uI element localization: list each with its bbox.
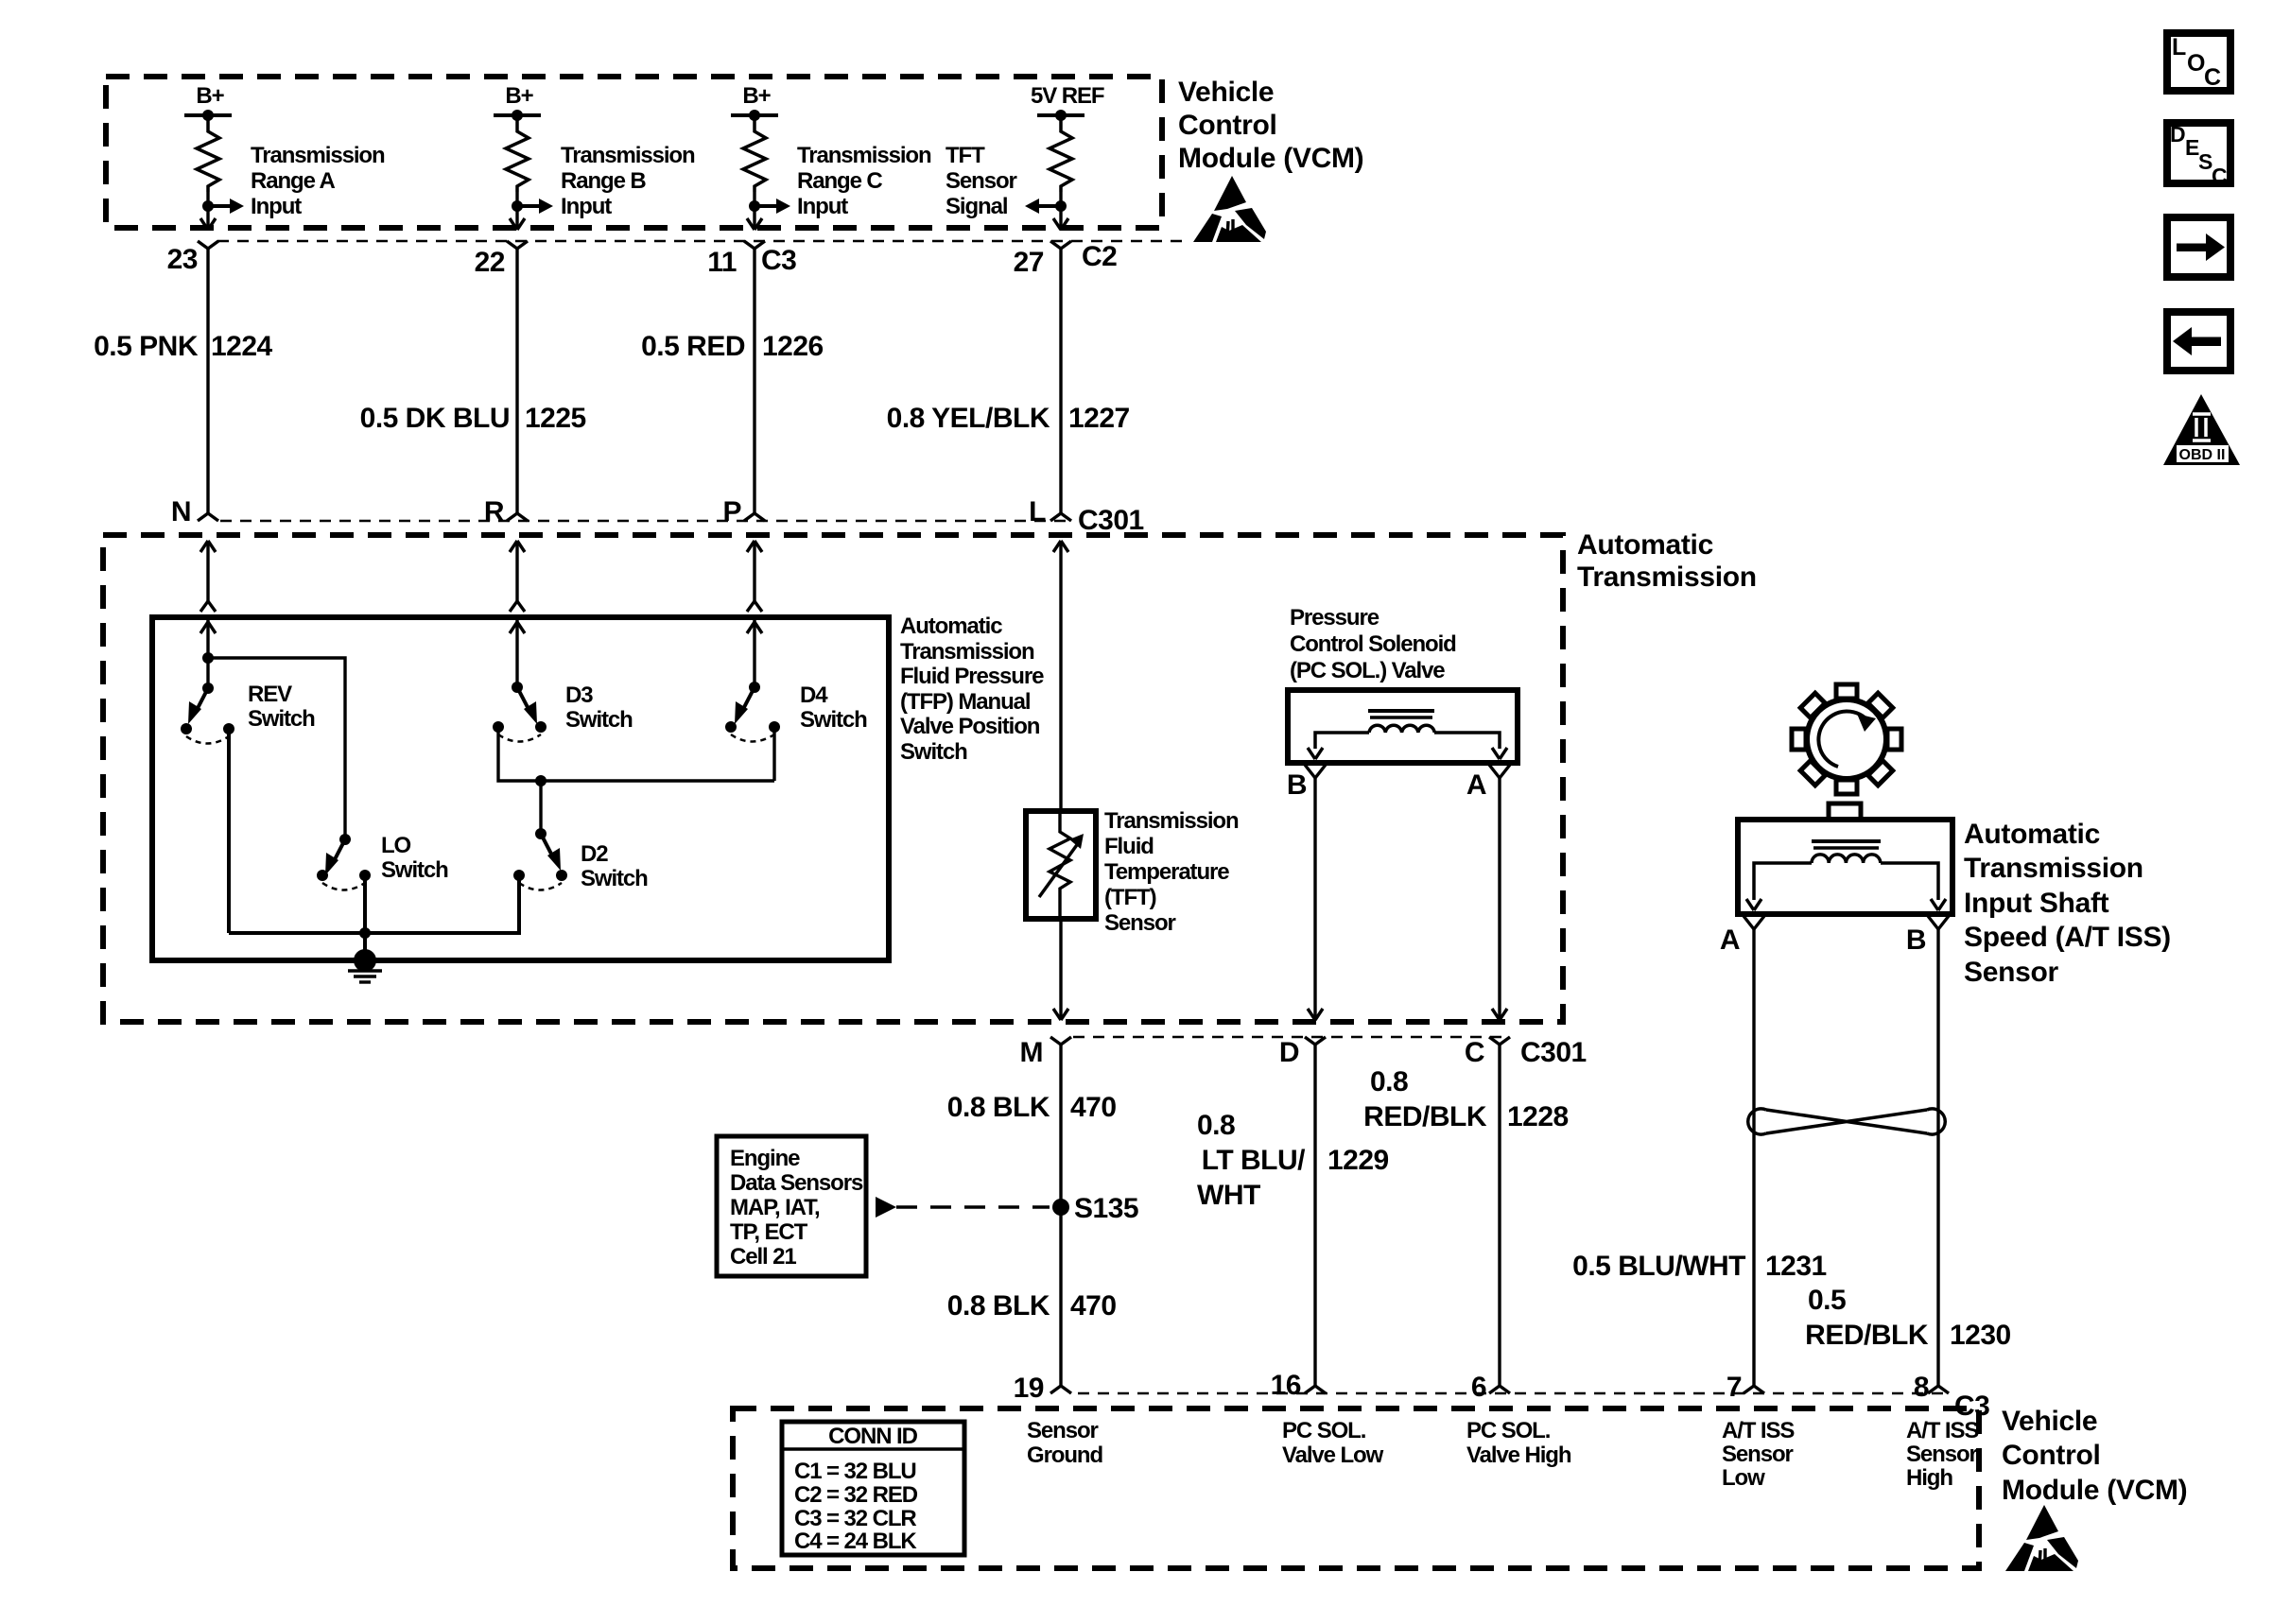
svg-text:O: O xyxy=(2187,50,2205,77)
PC SOL valve (pressure control solenoid) xyxy=(1288,690,1518,763)
svg-text:1225: 1225 xyxy=(525,403,586,434)
connector pin 16 xyxy=(1271,1370,1326,1401)
svg-text:Transmission: Transmission xyxy=(900,639,1034,665)
svg-text:1231: 1231 xyxy=(1765,1251,1827,1282)
svg-text:Module (VCM): Module (VCM) xyxy=(1178,143,1363,174)
svg-text:WHT: WHT xyxy=(1197,1180,1260,1211)
connector pin N xyxy=(171,496,218,527)
connector pin 27, C2 xyxy=(1014,241,1118,278)
resistor: Transmission Range C pull-up xyxy=(743,115,766,192)
svg-text:Input Shaft: Input Shaft xyxy=(1964,888,2109,919)
connector row C301 (bottom M/D/C) xyxy=(1073,1036,1509,1039)
svg-text:R: R xyxy=(484,496,505,527)
svg-text:Range A: Range A xyxy=(251,168,336,194)
svg-text:TFT: TFT xyxy=(946,143,985,168)
svg-text:Transmission: Transmission xyxy=(1964,853,2143,884)
A/T ISS sensor reluctor gear xyxy=(1769,662,1924,817)
svg-text:Data Sensors: Data Sensors xyxy=(730,1170,863,1196)
connector row C2/C3 (VCM pins 23/22/11/27) xyxy=(217,240,1187,243)
wire 1231: A/T ISS low to VCM pin 7 xyxy=(1752,929,1755,1386)
icon: LOC box xyxy=(2167,33,2230,91)
label: Automatic Transmission xyxy=(1577,529,1757,593)
svg-text:Control Solenoid: Control Solenoid xyxy=(1290,631,1456,657)
TFP manual valve position switch box xyxy=(152,617,889,960)
svg-text:Switch: Switch xyxy=(248,706,315,732)
svg-text:C2 = 32 RED: C2 = 32 RED xyxy=(794,1482,918,1508)
svg-text:1227: 1227 xyxy=(1068,403,1130,434)
wire 1229: PC SOL valve low D to VCM pin 16 xyxy=(1197,1045,1389,1386)
wire 1226: 0.5 RED pin 11 to C301 P xyxy=(641,249,824,513)
label: REV Switch xyxy=(248,682,315,732)
svg-text:Temperature: Temperature xyxy=(1104,859,1229,885)
svg-text:Range C: Range C xyxy=(797,168,882,194)
svg-text:Switch: Switch xyxy=(581,866,648,891)
label: Automatic Transmission Input Shaft Speed (A/T ISS) Sensor xyxy=(1964,819,2171,988)
wire entry arrow column P into transmission xyxy=(747,541,762,612)
svg-text:Sensor: Sensor xyxy=(1722,1442,1794,1467)
connector row C301 (N/R/P/L) xyxy=(220,520,1068,523)
svg-text:D: D xyxy=(1279,1037,1299,1068)
svg-text:C: C xyxy=(2212,164,2228,188)
svg-text:Valve High: Valve High xyxy=(1466,1443,1571,1468)
svg-text:(TFT): (TFT) xyxy=(1104,885,1156,910)
svg-text:Transmission: Transmission xyxy=(561,143,695,168)
svg-text:(PC SOL.) Valve: (PC SOL.) Valve xyxy=(1290,658,1445,683)
connector pin A (PC SOL) xyxy=(1466,765,1510,801)
svg-text:L: L xyxy=(1029,496,1046,527)
svg-text:B+: B+ xyxy=(196,83,224,109)
connector pin L, C301 xyxy=(1029,496,1144,536)
label: D3 Switch xyxy=(565,682,633,733)
svg-text:0.8 BLK: 0.8 BLK xyxy=(947,1092,1050,1123)
svg-text:Module (VCM): Module (VCM) xyxy=(2002,1475,2187,1506)
svg-text:Speed (A/T ISS): Speed (A/T ISS) xyxy=(1964,922,2171,953)
wire: column 2 resistor to pin 22 with node and arrow xyxy=(510,192,553,230)
svg-text:D3: D3 xyxy=(565,682,593,708)
wire entry arrow column L to TFT sensor xyxy=(1053,541,1068,811)
svg-text:B: B xyxy=(1906,924,1926,956)
wire: column 3 resistor to pin 11 with node and arrow xyxy=(747,192,790,230)
svg-text:S135: S135 xyxy=(1074,1193,1138,1224)
wire 1228: PC SOL valve high C to VCM pin 6 xyxy=(1363,1045,1569,1386)
wire: D2 contact to ground bus xyxy=(229,875,519,933)
svg-text:A/T ISS: A/T ISS xyxy=(1722,1418,1795,1443)
svg-text:C: C xyxy=(1465,1037,1484,1068)
svg-text:11: 11 xyxy=(707,247,737,278)
svg-text:Automatic: Automatic xyxy=(1577,529,1713,561)
wire: column 4 resistor to pin 27 with node and left arrow xyxy=(1025,192,1068,230)
switch D2 xyxy=(513,828,567,890)
ESD warning symbol (top VCM) xyxy=(1193,176,1266,242)
svg-text:Automatic: Automatic xyxy=(900,613,1002,639)
label: Vehicle Control Module (VCM) bottom xyxy=(2002,1406,2187,1506)
svg-text:A: A xyxy=(1720,924,1740,956)
label: D4 Switch xyxy=(800,682,867,733)
svg-text:High: High xyxy=(1906,1465,1952,1491)
label: A/T ISS Sensor Low xyxy=(1722,1418,1795,1491)
wire 1225: 0.5 DK BLU pin 22 to C301 R xyxy=(360,249,586,513)
svg-text:0.5 RED: 0.5 RED xyxy=(641,331,745,362)
label: Transmission Range A Input xyxy=(251,143,385,219)
TFT sensor (thermistor) xyxy=(1026,811,1096,919)
svg-text:0.5 PNK: 0.5 PNK xyxy=(94,331,199,362)
wire 1230: A/T ISS high to VCM pin 8 xyxy=(1936,929,1939,1386)
svg-text:MAP, IAT,: MAP, IAT, xyxy=(730,1195,820,1220)
wire: TFT sensor to C301 M with exit arrow xyxy=(1053,919,1068,1020)
svg-text:Switch: Switch xyxy=(565,707,633,733)
switch D4 xyxy=(725,682,780,742)
svg-text:A: A xyxy=(1466,769,1486,801)
label: Transmission Range C Input xyxy=(797,143,931,219)
svg-text:Sensor: Sensor xyxy=(946,168,1017,194)
label: 0.5 RED/BLK 1230 xyxy=(1805,1285,2011,1351)
resistor: TFT sensor pull-up xyxy=(1050,115,1072,192)
icon: OBD II triangle xyxy=(2163,394,2240,465)
svg-text:Input: Input xyxy=(797,194,848,219)
svg-text:D4: D4 xyxy=(800,682,828,708)
svg-text:0.5: 0.5 xyxy=(1808,1285,1846,1316)
svg-text:Fluid Pressure: Fluid Pressure xyxy=(900,664,1044,689)
node: ground bus junction xyxy=(359,927,371,939)
label: Vehicle Control Module (VCM) top xyxy=(1178,77,1363,174)
svg-text:(TFP) Manual: (TFP) Manual xyxy=(900,689,1030,715)
svg-text:23: 23 xyxy=(167,244,198,275)
svg-text:Transmission: Transmission xyxy=(1577,561,1757,593)
label: TFT Sensor Signal xyxy=(946,143,1017,219)
wire 1224: 0.5 PNK pin 23 to C301 N xyxy=(94,249,272,513)
wire: LO contact to ground xyxy=(363,875,367,960)
wire: D3 contact to D2 feed bus xyxy=(498,727,774,834)
icon: back arrow box xyxy=(2167,312,2230,371)
icon: forward arrow box xyxy=(2167,217,2230,277)
svg-text:0.8 YEL/BLK: 0.8 YEL/BLK xyxy=(887,403,1050,434)
CONN ID table xyxy=(782,1422,964,1555)
svg-text:CONN ID: CONN ID xyxy=(828,1424,917,1449)
svg-text:Transmission: Transmission xyxy=(1104,808,1239,834)
A/T ISS sensor body xyxy=(1738,803,1952,914)
svg-text:Pressure: Pressure xyxy=(1290,605,1379,631)
svg-text:Control: Control xyxy=(1178,110,1277,141)
svg-text:1229: 1229 xyxy=(1327,1145,1389,1176)
wire 470: sensor ground M to VCM pin 19 xyxy=(947,1045,1117,1386)
VCM top dashed module box xyxy=(106,77,1162,228)
wire: PC SOL B to C301 D with exit arrow xyxy=(1308,778,1323,1020)
connector pin 23 xyxy=(167,241,218,275)
svg-text:Sensor: Sensor xyxy=(1027,1418,1099,1443)
connector pin B (PC SOL) xyxy=(1287,765,1326,801)
connector pin D xyxy=(1279,1037,1326,1068)
svg-text:C4 = 24 BLK: C4 = 24 BLK xyxy=(794,1529,917,1554)
svg-text:B+: B+ xyxy=(742,83,771,109)
svg-text:Range B: Range B xyxy=(561,168,646,194)
svg-text:Sensor: Sensor xyxy=(1104,910,1176,936)
wire entry arrow column R into transmission xyxy=(510,541,525,612)
svg-text:0.8: 0.8 xyxy=(1370,1066,1408,1097)
svg-text:RED/BLK: RED/BLK xyxy=(1363,1101,1487,1132)
svg-text:Transmission: Transmission xyxy=(251,143,385,168)
label: Sensor Ground xyxy=(1027,1418,1102,1468)
label: 0.5 BLU/WHT 1231 xyxy=(1572,1251,1827,1282)
svg-text:Sensor: Sensor xyxy=(1964,957,2059,988)
svg-text:Input: Input xyxy=(561,194,612,219)
svg-text:B+: B+ xyxy=(505,83,533,109)
label: Automatic Transmission Fluid Pressure (TFP) Manual Valve Position Switch xyxy=(900,613,1044,765)
wire 1227: 0.8 YEL/BLK pin 27 to C301 L xyxy=(887,249,1130,513)
wire: dashed splice reference to S135 xyxy=(876,1197,1050,1218)
splice S135 xyxy=(1052,1193,1138,1224)
svg-text:C: C xyxy=(2204,64,2221,91)
svg-text:Vehicle: Vehicle xyxy=(1178,77,1274,108)
svg-text:LO: LO xyxy=(381,833,411,858)
svg-text:7: 7 xyxy=(1726,1372,1742,1403)
svg-text:D2: D2 xyxy=(581,841,608,867)
svg-text:16: 16 xyxy=(1271,1370,1301,1401)
wire: D3 column inside switch box xyxy=(510,620,525,687)
wire: column 1 resistor to pin 23 with node and arrow xyxy=(200,192,244,230)
svg-text:Fluid: Fluid xyxy=(1104,834,1154,859)
svg-text:470: 470 xyxy=(1070,1092,1117,1123)
power symbol B+ (column 3) xyxy=(731,83,778,121)
twisted pair symbol xyxy=(1748,1109,1946,1134)
svg-text:Ground: Ground xyxy=(1027,1443,1102,1468)
svg-text:C2: C2 xyxy=(1082,241,1117,272)
connector pin B (A/T ISS) xyxy=(1906,916,1949,956)
resistor: Transmission Range B pull-up xyxy=(506,115,529,192)
svg-text:19: 19 xyxy=(1014,1373,1044,1404)
connector pin 19 xyxy=(1014,1373,1071,1404)
svg-text:PC SOL.: PC SOL. xyxy=(1466,1418,1551,1443)
svg-text:Sensor: Sensor xyxy=(1906,1442,1978,1467)
svg-text:Valve Position: Valve Position xyxy=(900,714,1040,739)
connector pin A (A/T ISS) xyxy=(1720,916,1764,956)
Automatic Transmission dashed box xyxy=(103,535,1563,1022)
VCM bottom dashed module box xyxy=(733,1408,1979,1568)
svg-text:REV: REV xyxy=(248,682,292,707)
power symbol 5V REF (column 4) xyxy=(1031,83,1104,121)
ESD warning symbol (bottom VCM) xyxy=(2005,1505,2078,1571)
wire: REV node to LO switch feed xyxy=(202,652,345,839)
svg-text:Automatic: Automatic xyxy=(1964,819,2100,850)
svg-text:L: L xyxy=(2172,34,2186,60)
svg-text:Vehicle: Vehicle xyxy=(2002,1406,2097,1437)
connector pin C, C301 xyxy=(1465,1037,1587,1068)
resistor: Transmission Range A pull-up xyxy=(197,115,219,192)
svg-text:Valve Low: Valve Low xyxy=(1282,1443,1384,1468)
connector pin M xyxy=(1020,1037,1072,1068)
svg-text:A/T ISS: A/T ISS xyxy=(1906,1418,1979,1443)
svg-text:0.5 DK BLU: 0.5 DK BLU xyxy=(360,403,510,434)
ground: TFP switch common xyxy=(348,949,382,982)
svg-text:Switch: Switch xyxy=(381,857,448,883)
svg-text:TP, ECT: TP, ECT xyxy=(730,1219,808,1245)
svg-text:D: D xyxy=(2170,122,2186,147)
svg-text:PC SOL.: PC SOL. xyxy=(1282,1418,1366,1443)
svg-text:470: 470 xyxy=(1070,1290,1117,1322)
wire: REV contact to ground bus xyxy=(227,729,231,933)
svg-text:C301: C301 xyxy=(1520,1037,1587,1068)
svg-text:Switch: Switch xyxy=(800,707,867,733)
icon: DESC box xyxy=(2167,122,2230,188)
connector pin 11, C3 xyxy=(707,241,796,278)
switch REV xyxy=(181,682,234,744)
svg-text:1230: 1230 xyxy=(1950,1320,2011,1351)
svg-text:C301: C301 xyxy=(1078,505,1144,536)
switch LO xyxy=(317,834,371,890)
Engine Data Sensors reference box xyxy=(717,1136,866,1276)
svg-text:M: M xyxy=(1020,1037,1044,1068)
svg-text:0.8 BLK: 0.8 BLK xyxy=(947,1290,1050,1322)
svg-text:C3: C3 xyxy=(761,245,796,276)
svg-text:0.5 BLU/WHT: 0.5 BLU/WHT xyxy=(1572,1251,1745,1282)
label: Pressure Control Solenoid (PC SOL.) Valve xyxy=(1290,605,1456,683)
connector pin 22 xyxy=(475,241,528,278)
label: LO Switch xyxy=(381,833,448,883)
svg-text:Input: Input xyxy=(251,194,302,219)
wire: REV column inside switch box xyxy=(200,620,216,688)
svg-text:1224: 1224 xyxy=(211,331,273,362)
svg-text:22: 22 xyxy=(475,247,505,278)
connector pin 7 xyxy=(1726,1372,1764,1403)
svg-text:OBD II: OBD II xyxy=(2179,447,2226,463)
svg-text:Transmission: Transmission xyxy=(797,143,931,168)
svg-text:5V REF: 5V REF xyxy=(1031,83,1104,109)
svg-text:C1 = 32 BLU: C1 = 32 BLU xyxy=(794,1459,916,1484)
label: Transmission Range B Input xyxy=(561,143,695,219)
power symbol B+ (column 2) xyxy=(494,83,541,121)
svg-text:1228: 1228 xyxy=(1507,1101,1569,1132)
svg-text:C3 = 32 CLR: C3 = 32 CLR xyxy=(794,1506,916,1531)
connector pin 8, C3 xyxy=(1914,1372,1990,1422)
connector row C3 (VCM pins 19/16/6/7/8) xyxy=(1078,1392,1946,1395)
svg-text:Control: Control xyxy=(2002,1440,2101,1471)
svg-text:RED/BLK: RED/BLK xyxy=(1805,1320,1929,1351)
svg-text:Cell 21: Cell 21 xyxy=(730,1244,796,1270)
svg-text:P: P xyxy=(722,496,741,527)
label: PC SOL. Valve Low xyxy=(1282,1418,1384,1468)
svg-text:LT BLU/: LT BLU/ xyxy=(1202,1145,1306,1176)
label: Transmission Fluid Temperature (TFT) Sensor xyxy=(1104,808,1239,936)
svg-text:1226: 1226 xyxy=(762,331,824,362)
svg-text:0.8: 0.8 xyxy=(1197,1110,1235,1141)
svg-text:27: 27 xyxy=(1014,247,1044,278)
svg-text:8: 8 xyxy=(1914,1372,1929,1403)
label: D2 Switch xyxy=(581,841,648,891)
svg-text:B: B xyxy=(1287,769,1307,801)
svg-text:N: N xyxy=(171,496,191,527)
svg-text:Engine: Engine xyxy=(730,1146,800,1171)
wire: PC SOL A to C301 C with exit arrow xyxy=(1492,778,1507,1020)
label: A/T ISS Sensor High xyxy=(1906,1418,1979,1491)
svg-text:Low: Low xyxy=(1722,1465,1765,1491)
svg-text:Signal: Signal xyxy=(946,194,1007,219)
wire: D4 contact to bus xyxy=(772,727,775,781)
svg-text:Switch: Switch xyxy=(900,739,967,765)
connector pin P xyxy=(722,496,765,527)
switch D3 xyxy=(493,682,547,742)
wire: D4 column inside switch box xyxy=(747,620,762,687)
connector pin R xyxy=(484,496,528,527)
label: PC SOL. Valve High xyxy=(1466,1418,1571,1468)
svg-text:6: 6 xyxy=(1471,1372,1486,1403)
wire entry arrow column N into transmission xyxy=(200,541,216,612)
power symbol B+ (column 1) xyxy=(184,83,232,121)
connector pin 6 xyxy=(1471,1372,1510,1403)
